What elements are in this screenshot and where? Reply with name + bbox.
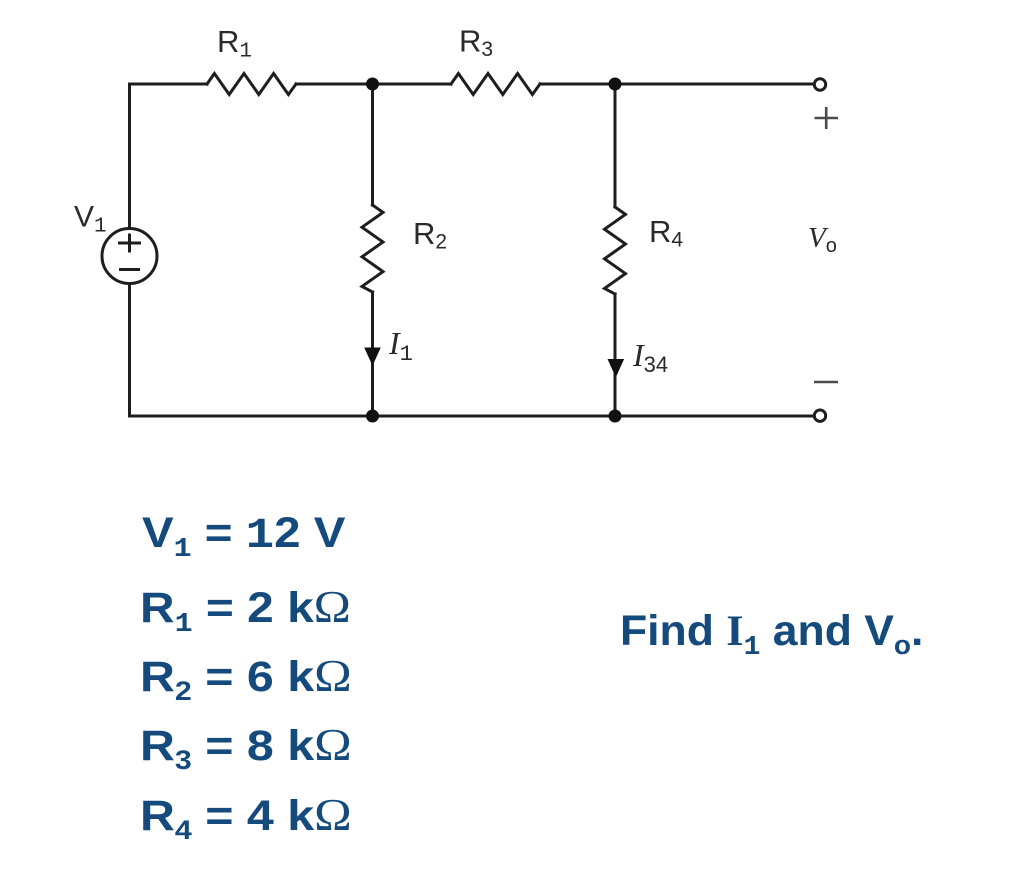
wire source bottom to bottom-left corner [130,284,373,417]
resistor R4 [605,207,626,294]
svg-text:R2: R2 [413,216,447,254]
svg-text:R1: R1 [217,24,252,64]
arrow I34 [608,359,625,377]
wire node A to R1 [296,83,451,86]
resistor R2 [362,205,383,292]
resistor R1 [207,74,296,95]
wire R2 to bottom node [371,292,374,416]
svg-text:I1: I1 [388,325,413,367]
wire top-left segment [130,84,208,229]
value line R1 = 2 kOhm [140,585,351,630]
resistor R3 [451,74,540,95]
terminal bottom right [814,410,825,421]
value line R3 = 8 kOhm [140,723,352,768]
svg-text:R4: R4 [649,214,683,252]
svg-text:Vo: Vo [808,222,837,257]
value line R4 = 4 kOhm [140,793,352,838]
wire R4 to bottom node [614,294,617,416]
voltage source V1 [102,229,157,284]
minus output mark [814,381,838,384]
node C (bottom middle) [366,410,379,423]
node D (bottom right) [609,410,622,423]
svg-text:V1: V1 [74,201,107,239]
node A (top middle) [366,78,379,91]
svg-text:I34: I34 [632,337,668,377]
plus output mark [815,107,839,129]
wire node B down to R4 [614,84,617,207]
wire bottom to terminal [615,415,814,418]
node B (top right) [609,78,622,91]
value line V1 = 12 V [142,512,345,557]
question Find I1 and Vo [620,610,923,653]
wire node A down to R2 [371,84,374,205]
terminal top right [814,79,825,90]
arrow I1 [364,348,381,366]
value line R2 = 6 kOhm [140,654,352,699]
wire node B to top terminal [540,83,814,86]
svg-text:R3: R3 [459,24,493,62]
wire bottom middle [373,415,616,418]
